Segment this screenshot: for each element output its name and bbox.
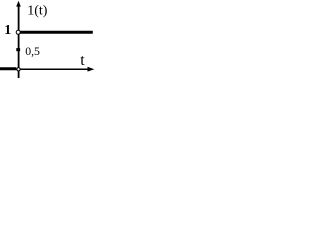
- svg-text:t: t: [80, 52, 85, 69]
- step line at level 1 for t>0: [20, 31, 93, 34]
- vertical axis (ordinate): [18, 5, 20, 79]
- vertical axis arrowhead: [16, 1, 21, 7]
- svg-text:0,5: 0,5: [25, 44, 40, 58]
- open circle at point (0,1): [16, 30, 20, 34]
- horizontal axis arrowhead: [88, 67, 95, 72]
- svg-text:1: 1: [4, 23, 11, 38]
- tick at 0,5 on vertical axis: [16, 48, 20, 51]
- step line at level 0 for t<0: [0, 67, 16, 70]
- horizontal axis (t): [0, 68, 92, 70]
- open circle at origin: [17, 68, 20, 71]
- svg-text:1(t): 1(t): [27, 4, 48, 19]
